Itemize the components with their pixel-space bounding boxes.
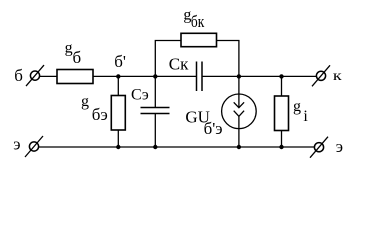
collector junction node	[237, 74, 241, 78]
wire node down to Сэ	[154, 76, 156, 107]
node к label	[333, 68, 342, 84]
svg-text:б': б'	[114, 52, 126, 71]
node э (left emitter terminal)	[25, 136, 43, 157]
svg-text:g: g	[293, 98, 301, 115]
wire g_i to bottom rail	[281, 131, 283, 148]
node э (right emitter terminal)	[310, 137, 328, 158]
wire б' down to g_бэ	[117, 76, 119, 95]
svg-text:Ск: Ск	[169, 55, 189, 74]
junction dot g_i bottom	[279, 145, 283, 149]
wire base terminal to resistor	[40, 75, 57, 77]
wire down to g_i	[281, 76, 283, 96]
resistor g_б	[57, 70, 93, 84]
resistor g_бэ	[111, 96, 125, 131]
wire resistor to Ск left plate	[93, 75, 197, 77]
capacitor Ск	[197, 62, 203, 92]
junction dot current source bottom	[237, 145, 241, 149]
bottom emitter rail wire	[39, 146, 315, 148]
wire Ск right plate to collector terminal	[202, 75, 316, 77]
svg-text:бк: бк	[191, 12, 205, 31]
current source GU_б'э	[222, 76, 257, 147]
junction dot g_бэ bottom	[116, 145, 120, 149]
svg-text:i: i	[303, 108, 308, 125]
svg-text:Сэ: Сэ	[131, 87, 149, 104]
node б (base terminal)	[26, 65, 44, 86]
svg-text:к: к	[333, 68, 342, 84]
node к (collector terminal)	[312, 65, 330, 86]
wire node up to g_бк branch (left leg)	[155, 41, 181, 77]
svg-text:g: g	[65, 40, 73, 57]
junction node on base wire (Cэ / g_бк tap)	[153, 74, 157, 78]
g_i top junction node	[279, 74, 283, 78]
svg-text:э: э	[13, 134, 20, 153]
capacitor Сэ	[141, 108, 170, 114]
svg-text:б: б	[73, 48, 82, 67]
svg-text:g: g	[81, 93, 89, 110]
svg-text:бэ: бэ	[92, 105, 108, 124]
svg-text:б: б	[14, 66, 23, 85]
wire Сэ to bottom rail	[154, 114, 156, 148]
resistor g_i	[275, 96, 289, 131]
junction dot Сэ bottom	[153, 145, 157, 149]
wire g_бк right leg down to collector node	[217, 41, 239, 77]
resistor g_бк	[181, 33, 217, 46]
node б'	[116, 74, 120, 78]
svg-text:б'э: б'э	[204, 119, 223, 138]
svg-text:э: э	[336, 137, 343, 156]
wire g_бэ to bottom rail	[117, 130, 119, 147]
